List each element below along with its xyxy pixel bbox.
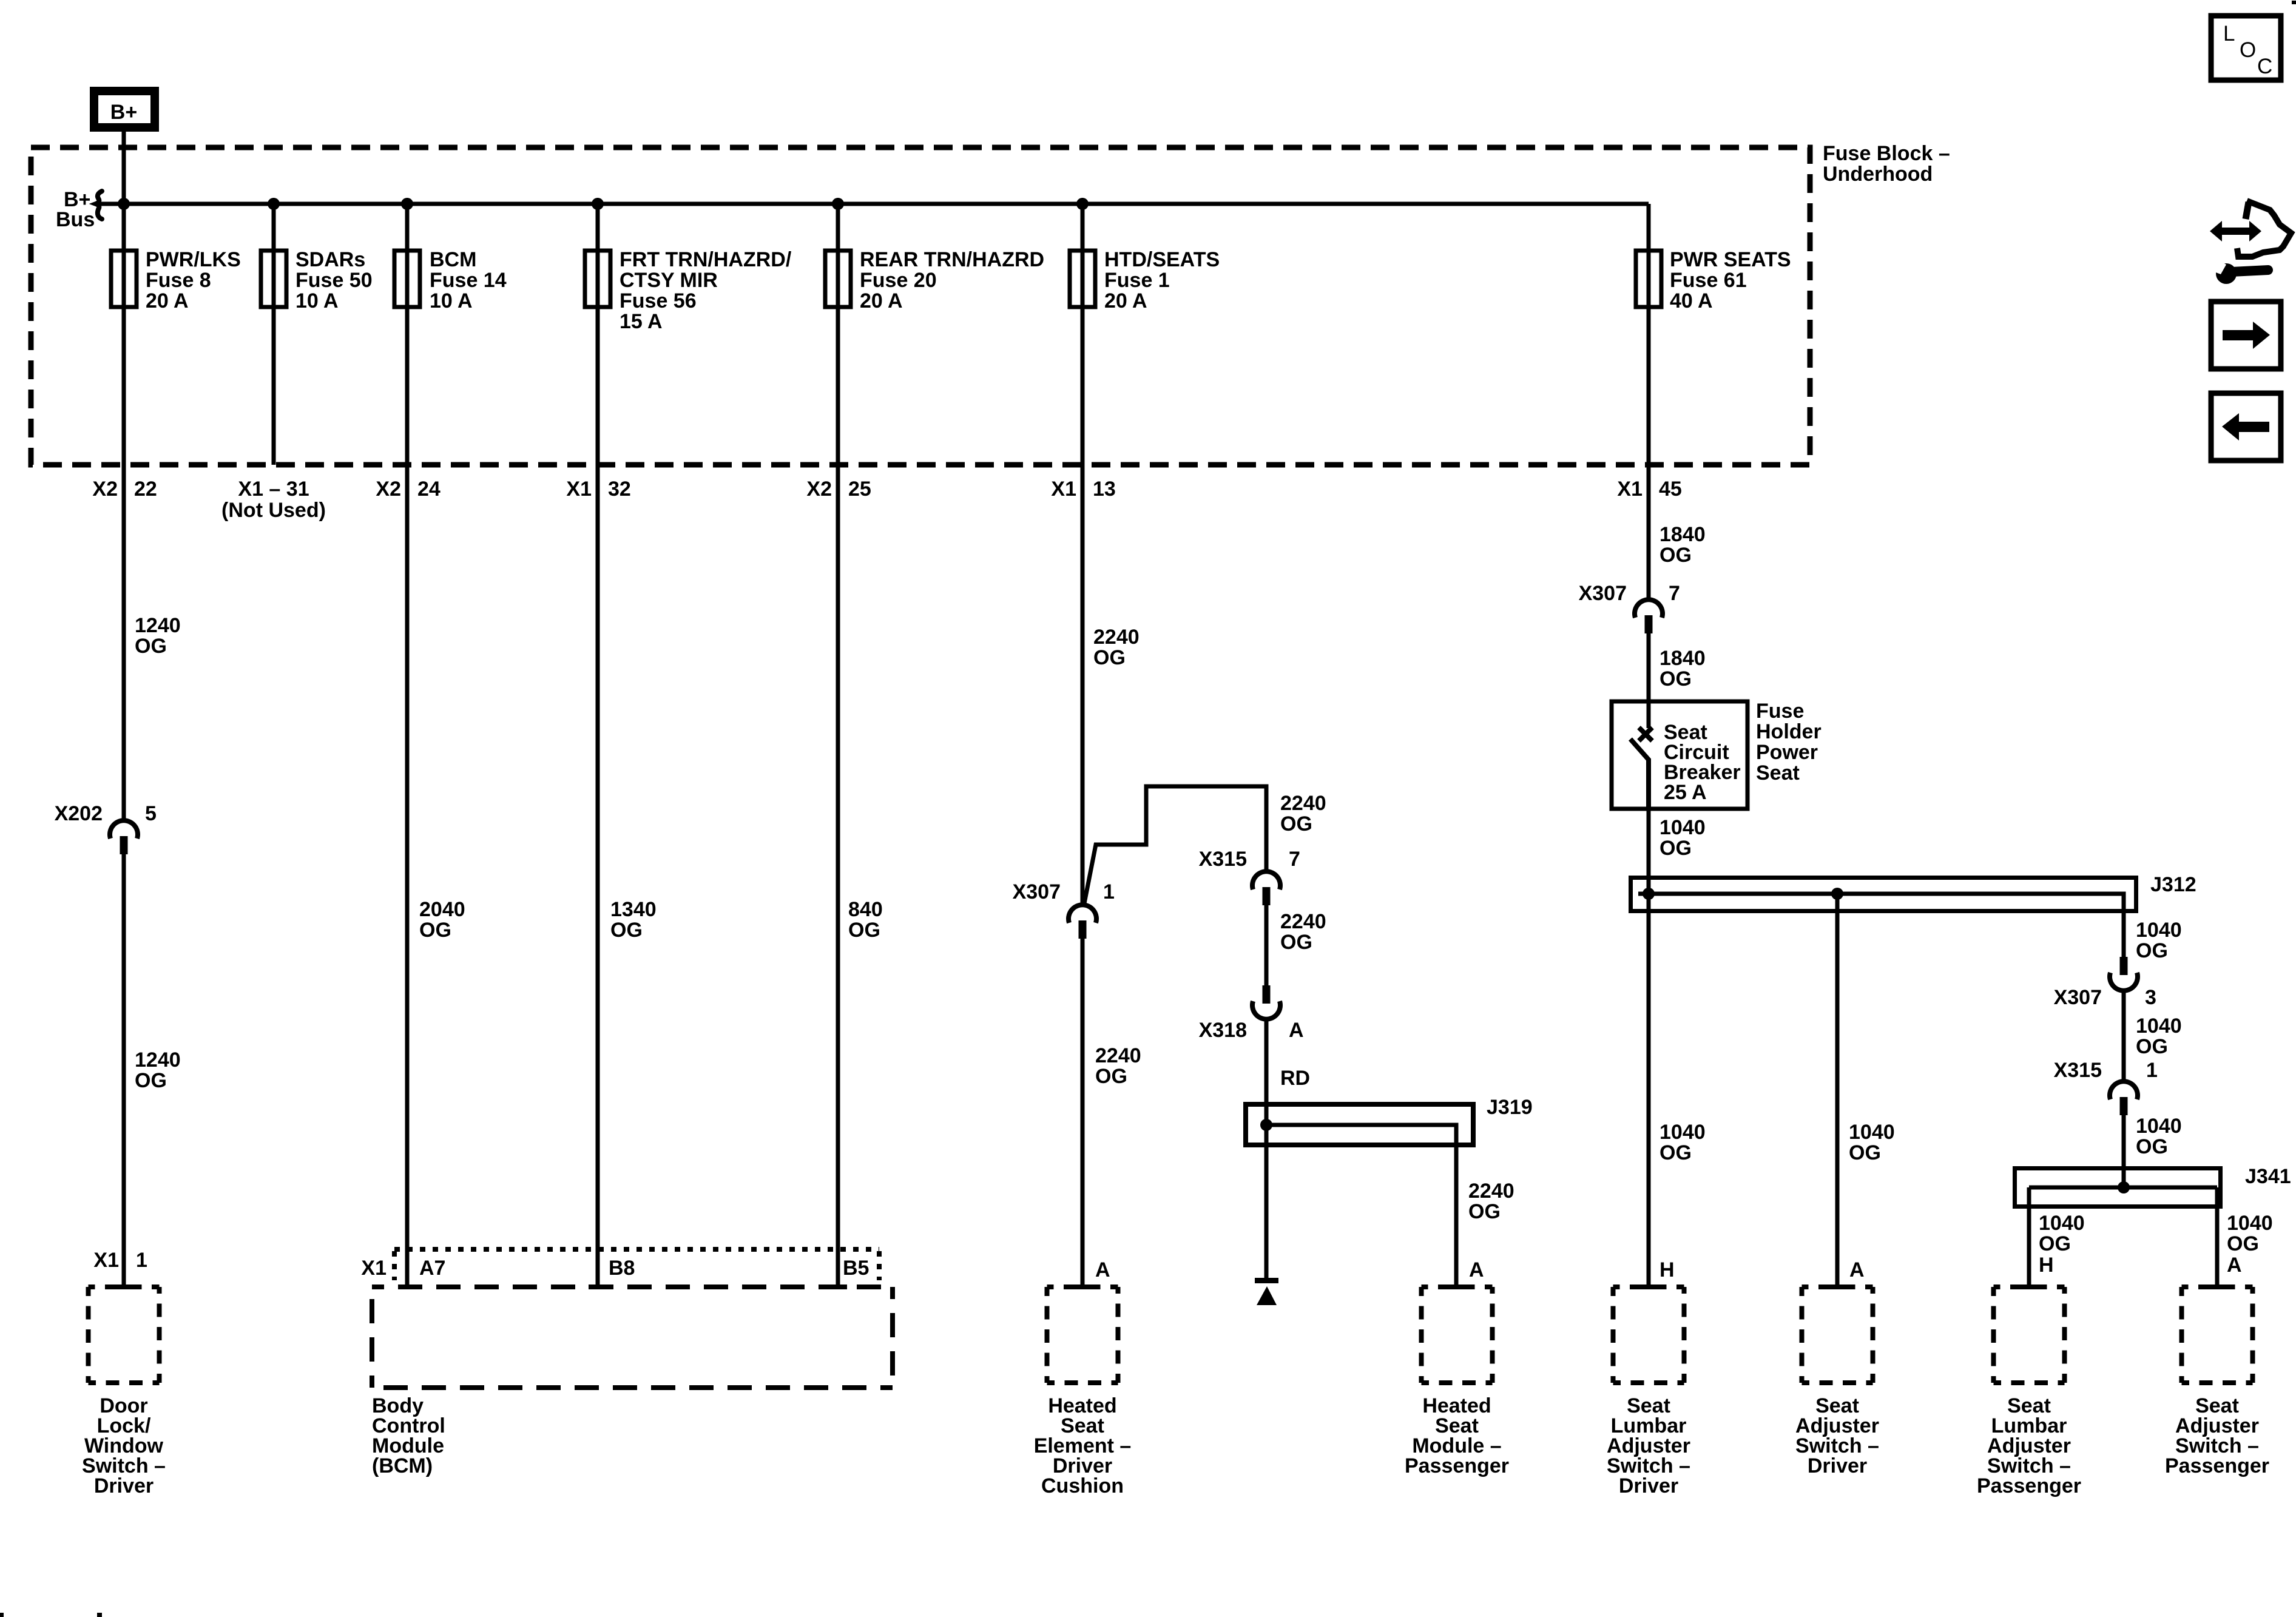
svg-text:RD: RD xyxy=(1280,1067,1310,1090)
svg-text:X315: X315 xyxy=(1199,848,1247,871)
svg-text:3: 3 xyxy=(2145,986,2156,1009)
svg-text:22: 22 xyxy=(134,478,157,501)
svg-text:A: A xyxy=(2227,1254,2242,1277)
fuse block - underhood dashed border xyxy=(31,147,1810,465)
B+ Bus label xyxy=(56,188,95,231)
svg-text:2040: 2040 xyxy=(419,898,465,921)
wire J312 drop to adjuster driver xyxy=(1835,894,1840,1287)
pin H lumbar passenger xyxy=(2039,1254,2054,1277)
svg-text:X1: X1 xyxy=(1617,478,1643,501)
svg-text:1: 1 xyxy=(1103,880,1115,903)
svg-text:1: 1 xyxy=(2146,1059,2158,1082)
wire HTD/SEATS circuit upper xyxy=(1081,204,1085,905)
label 1240 OG upper xyxy=(135,614,181,658)
svg-text:OG: OG xyxy=(419,919,451,942)
component Seat Adjuster Switch Passenger xyxy=(2165,1287,2269,1477)
pin X1 45 fuse block xyxy=(1617,478,1681,501)
svg-text:C: C xyxy=(2257,55,2272,78)
wire B+ bus horizontal xyxy=(100,202,1649,206)
svg-text:A: A xyxy=(1095,1258,1110,1281)
svg-text:7: 7 xyxy=(1289,848,1300,871)
wire PWR SEATS circuit upper xyxy=(1647,204,1651,599)
component Heated Seat Module Passenger xyxy=(1405,1287,1509,1477)
svg-text:B+: B+ xyxy=(110,101,137,124)
svg-text:X318: X318 xyxy=(1199,1019,1247,1042)
wire REAR TRN circuit xyxy=(836,204,840,1287)
label 1340 OG xyxy=(610,898,657,942)
node bus junction FRT TRN xyxy=(592,198,604,210)
fuse FRT TRN/HAZRD/CTSY MIR Fuse 56 xyxy=(585,248,792,333)
svg-text:HTD/SEATS: HTD/SEATS xyxy=(1104,248,1220,271)
fuse PWR/LKS Fuse 8 xyxy=(111,248,241,312)
connector X315 pin 7 xyxy=(1199,848,1300,905)
svg-text:Fuse 50: Fuse 50 xyxy=(295,269,373,292)
icon back arrow box xyxy=(2211,393,2281,461)
svg-text:Fuse 61: Fuse 61 xyxy=(1670,269,1747,292)
label 1040 OG lumbar passenger xyxy=(2039,1212,2085,1255)
B+ power feed box xyxy=(94,91,155,127)
icon LOC box xyxy=(2211,16,2281,80)
node bus junction SDARs xyxy=(268,198,280,210)
label 1040 OG right mid xyxy=(2136,1014,2182,1058)
wire J341 drop to lumbar passenger xyxy=(2027,1187,2031,1287)
label RD xyxy=(1280,1067,1310,1090)
svg-text:OG: OG xyxy=(1660,544,1692,567)
connector X1 BCM dotted xyxy=(394,1249,879,1280)
wire PWR/LKS circuit lower xyxy=(122,854,126,1287)
svg-text:OG: OG xyxy=(1660,837,1692,860)
svg-text:H: H xyxy=(2039,1254,2054,1277)
svg-text:2240: 2240 xyxy=(1280,910,1326,933)
pin H lumbar driver xyxy=(1660,1258,1675,1281)
svg-text:SDARs: SDARs xyxy=(295,248,365,271)
label 2240 OG to module xyxy=(1468,1180,1514,1223)
pin X1 1 door lock switch xyxy=(93,1249,147,1272)
connector X202 pin 5 xyxy=(55,802,157,854)
svg-text:Driver: Driver xyxy=(1808,1454,1867,1477)
svg-text:Fuse 8: Fuse 8 xyxy=(146,269,211,292)
page mark bottom left xyxy=(0,1613,102,1617)
wire X307-3 to X315-1 xyxy=(2122,989,2126,1082)
svg-text:1040: 1040 xyxy=(2227,1212,2273,1235)
fuse SDARs Fuse 50 xyxy=(261,248,373,312)
wire BCM circuit xyxy=(405,204,410,1287)
fuse BCM Fuse 14 xyxy=(394,248,507,312)
svg-text:REAR TRN/HAZRD: REAR TRN/HAZRD xyxy=(860,248,1044,271)
svg-text:OG: OG xyxy=(1280,812,1312,836)
connector X307 pin 7 xyxy=(1579,582,1680,633)
pin X2 24 fuse block xyxy=(376,478,441,501)
fuse PWR SEATS Fuse 61 xyxy=(1636,248,1791,312)
pin X1-31 not used xyxy=(221,478,326,522)
svg-text:Power: Power xyxy=(1756,741,1818,764)
svg-text:BCM: BCM xyxy=(430,248,476,271)
label Fuse Holder Power Seat xyxy=(1756,700,1822,785)
svg-text:FRT TRN/HAZRD/: FRT TRN/HAZRD/ xyxy=(620,248,792,271)
svg-text:J341: J341 xyxy=(2245,1165,2291,1188)
svg-text:1040: 1040 xyxy=(1660,1121,1706,1144)
wire X318 to ground xyxy=(1264,1019,1269,1280)
node bus junction HTD/SEATS xyxy=(1076,198,1089,210)
label 1840 OG lower xyxy=(1660,647,1706,690)
svg-text:X1: X1 xyxy=(566,478,592,501)
svg-text:OG: OG xyxy=(2039,1232,2071,1255)
pin X1 32 fuse block xyxy=(566,478,630,501)
svg-text:1840: 1840 xyxy=(1660,647,1706,670)
connector X318 pin A xyxy=(1199,985,1304,1042)
icon vehicle data arrow xyxy=(2210,201,2291,257)
svg-text:A: A xyxy=(1849,1258,1865,1281)
svg-text:OG: OG xyxy=(1468,1200,1501,1223)
label 1040 OG right top xyxy=(2136,919,2182,962)
svg-text:H: H xyxy=(1660,1258,1675,1281)
svg-text:2240: 2240 xyxy=(1280,792,1326,815)
bus hook symbol xyxy=(96,191,102,219)
connector X307 pin 3 xyxy=(2054,957,2156,1009)
wire X307-7 to breaker xyxy=(1647,633,1651,701)
svg-text:OG: OG xyxy=(1095,1065,1127,1088)
svg-text:Fuse Block –: Fuse Block – xyxy=(1823,142,1950,165)
svg-text:13: 13 xyxy=(1093,478,1116,501)
svg-text:OG: OG xyxy=(2136,1135,2168,1158)
wire X315-1 to J341 xyxy=(2122,1115,2126,1187)
svg-text:1040: 1040 xyxy=(2136,1014,2182,1038)
svg-text:X315: X315 xyxy=(2054,1059,2102,1082)
svg-text:O: O xyxy=(2240,38,2256,62)
pin X2 25 fuse block xyxy=(806,478,871,501)
node bus junction PWR/LKS xyxy=(118,198,130,210)
svg-text:OG: OG xyxy=(610,919,643,942)
svg-text:1040: 1040 xyxy=(2136,1115,2182,1138)
svg-text:OG: OG xyxy=(135,635,167,658)
svg-text:X307: X307 xyxy=(1013,880,1061,903)
svg-text:OG: OG xyxy=(2136,1035,2168,1058)
svg-text:10 A: 10 A xyxy=(430,289,473,312)
svg-text:10 A: 10 A xyxy=(295,289,339,312)
label 2240 OG branch mid xyxy=(1280,910,1326,954)
svg-text:Driver: Driver xyxy=(94,1474,154,1497)
svg-text:Underhood: Underhood xyxy=(1823,163,1933,186)
svg-text:840: 840 xyxy=(848,898,883,921)
svg-text:X1: X1 xyxy=(361,1257,387,1280)
svg-text:OG: OG xyxy=(2227,1232,2259,1255)
splice pack J312 xyxy=(1631,873,2196,957)
svg-text:1040: 1040 xyxy=(2136,919,2182,942)
wire branch to X315 xyxy=(1084,786,1266,906)
svg-text:Cushion: Cushion xyxy=(1041,1474,1124,1497)
svg-text:1040: 1040 xyxy=(1849,1121,1895,1144)
label 1840 OG upper xyxy=(1660,523,1706,567)
wire PWR/LKS circuit upper xyxy=(122,204,126,820)
node bus junction REAR TRN xyxy=(832,198,844,210)
svg-text:X2: X2 xyxy=(92,478,118,501)
connector X315 pin 1 xyxy=(2054,1059,2158,1115)
svg-text:X1 – 31: X1 – 31 xyxy=(238,478,309,501)
svg-text:1040: 1040 xyxy=(2039,1212,2085,1235)
wire SDARs stub xyxy=(272,204,276,465)
svg-text:Passenger: Passenger xyxy=(2165,1454,2269,1477)
component Heated Seat Element Driver Cushion xyxy=(1034,1287,1132,1497)
pin A heated seat module xyxy=(1469,1258,1484,1281)
node bus junction BCM xyxy=(401,198,413,210)
svg-text:2240: 2240 xyxy=(1468,1180,1514,1203)
svg-text:X307: X307 xyxy=(1579,582,1627,605)
svg-text:Fuse 20: Fuse 20 xyxy=(860,269,937,292)
svg-text:25 A: 25 A xyxy=(1664,781,1707,804)
svg-text:OG: OG xyxy=(1093,646,1126,669)
svg-text:A: A xyxy=(1289,1019,1304,1042)
svg-text:15 A: 15 A xyxy=(620,310,663,333)
svg-text:PWR/LKS: PWR/LKS xyxy=(146,248,241,271)
wire HTD/SEATS circuit lower xyxy=(1081,939,1085,1287)
pin B8 BCM xyxy=(609,1257,635,1280)
svg-text:X202: X202 xyxy=(55,802,103,825)
svg-text:OG: OG xyxy=(1280,931,1312,954)
svg-text:1240: 1240 xyxy=(135,1048,181,1072)
svg-text:CTSY MIR: CTSY MIR xyxy=(620,269,718,292)
label 1040 OG adjuster passenger xyxy=(2227,1212,2273,1255)
label 2240 OG branch upper xyxy=(1280,792,1326,836)
svg-text:A7: A7 xyxy=(419,1257,445,1280)
svg-text:20 A: 20 A xyxy=(860,289,903,312)
splice pack J319 xyxy=(1246,1096,1533,1287)
label 1040 OG lumbar driver xyxy=(1660,1121,1706,1164)
svg-text:20 A: 20 A xyxy=(146,289,189,312)
svg-text:X1: X1 xyxy=(1051,478,1076,501)
pin X1 13 fuse block xyxy=(1051,478,1115,501)
label 1040 OG right lower xyxy=(2136,1115,2182,1158)
label 2040 OG xyxy=(419,898,465,942)
label 2240 OG htd upper xyxy=(1093,626,1140,669)
svg-text:J319: J319 xyxy=(1487,1096,1533,1119)
svg-text:32: 32 xyxy=(608,478,631,501)
icon wrench xyxy=(2209,258,2268,284)
component Body Control Module xyxy=(372,1287,893,1477)
label Fuse Block - Underhood xyxy=(1823,142,1950,186)
svg-text:X307: X307 xyxy=(2054,986,2102,1009)
svg-text:PWR SEATS: PWR SEATS xyxy=(1670,248,1791,271)
svg-text:OG: OG xyxy=(848,919,880,942)
svg-text:Fuse: Fuse xyxy=(1756,700,1804,723)
svg-text:Driver: Driver xyxy=(1619,1474,1678,1497)
svg-text:25: 25 xyxy=(848,478,871,501)
svg-text:24: 24 xyxy=(417,478,441,501)
wire breaker to lumbar driver switch xyxy=(1647,809,1651,1287)
page mark top right xyxy=(2292,1,2296,4)
svg-text:7: 7 xyxy=(1669,582,1680,605)
label 1240 OG lower xyxy=(135,1048,181,1092)
label 1040 OG adjuster driver xyxy=(1849,1121,1895,1164)
label 840 OG xyxy=(848,898,883,942)
svg-text:OG: OG xyxy=(135,1069,167,1092)
pin X2 22 fuse block xyxy=(92,478,157,501)
component Door Lock/Window Switch - Driver xyxy=(82,1287,166,1497)
component Seat Lumbar Adjuster Switch Driver xyxy=(1607,1287,1690,1497)
pin A adjuster driver xyxy=(1849,1258,1865,1281)
svg-text:X1: X1 xyxy=(93,1249,119,1272)
svg-text:(Not Used): (Not Used) xyxy=(221,499,326,522)
svg-text:J312: J312 xyxy=(2150,873,2196,896)
svg-text:1: 1 xyxy=(136,1249,147,1272)
svg-text:Passenger: Passenger xyxy=(1405,1454,1509,1477)
fuse HTD/SEATS Fuse 1 xyxy=(1070,248,1220,312)
svg-text:40 A: 40 A xyxy=(1670,289,1713,312)
svg-text:OG: OG xyxy=(1849,1141,1881,1164)
svg-text:B5: B5 xyxy=(843,1257,869,1280)
svg-text:(BCM): (BCM) xyxy=(372,1454,433,1477)
wire X315-7 to X318 xyxy=(1264,905,1269,985)
svg-text:1040: 1040 xyxy=(1660,816,1706,839)
connector X307 pin 1 xyxy=(1013,880,1115,939)
pin A heated seat element xyxy=(1095,1258,1110,1281)
svg-text:Fuse 14: Fuse 14 xyxy=(430,269,507,292)
svg-text:1340: 1340 xyxy=(610,898,657,921)
svg-text:20 A: 20 A xyxy=(1104,289,1147,312)
svg-text:X2: X2 xyxy=(376,478,401,501)
svg-text:Holder: Holder xyxy=(1756,720,1822,743)
wire B+ box to bus xyxy=(122,132,126,206)
svg-text:1840: 1840 xyxy=(1660,523,1706,546)
svg-text:Fuse 1: Fuse 1 xyxy=(1104,269,1170,292)
ground G xyxy=(1255,1278,1278,1305)
svg-text:B8: B8 xyxy=(609,1257,635,1280)
pin A adjuster passenger xyxy=(2227,1254,2242,1277)
svg-text:45: 45 xyxy=(1659,478,1682,501)
svg-text:X2: X2 xyxy=(806,478,832,501)
label 2240 OG htd lower xyxy=(1095,1044,1141,1088)
fuse REAR TRN/HAZRD Fuse 20 xyxy=(825,248,1044,312)
wire J341 drop to adjuster passenger xyxy=(2215,1187,2220,1287)
svg-text:L: L xyxy=(2223,22,2235,46)
svg-text:Passenger: Passenger xyxy=(1977,1474,2081,1497)
svg-text:A: A xyxy=(1469,1258,1484,1281)
svg-text:2240: 2240 xyxy=(1093,626,1140,649)
component Seat Adjuster Switch Driver xyxy=(1795,1287,1879,1477)
svg-text:OG: OG xyxy=(2136,939,2168,962)
component Seat Lumbar Adjuster Switch Passenger xyxy=(1977,1287,2081,1497)
circuit breaker Seat Circuit Breaker 25A xyxy=(1612,701,1747,809)
label 1040 OG below breaker xyxy=(1660,816,1706,860)
svg-text:Seat: Seat xyxy=(1756,761,1800,785)
svg-text:OG: OG xyxy=(1660,667,1692,690)
svg-text:Fuse 56: Fuse 56 xyxy=(620,289,697,312)
splice pack J341 xyxy=(2015,1165,2291,1207)
svg-text:5: 5 xyxy=(145,802,157,825)
pin B5 BCM xyxy=(843,1257,869,1280)
pin X1 A7 BCM xyxy=(361,1257,445,1280)
svg-text:1240: 1240 xyxy=(135,614,181,637)
wire FRT TRN circuit xyxy=(596,204,600,1287)
svg-text:2240: 2240 xyxy=(1095,1044,1141,1067)
svg-text:Bus: Bus xyxy=(56,208,95,231)
icon forward arrow box xyxy=(2211,302,2281,369)
svg-text:OG: OG xyxy=(1660,1141,1692,1164)
